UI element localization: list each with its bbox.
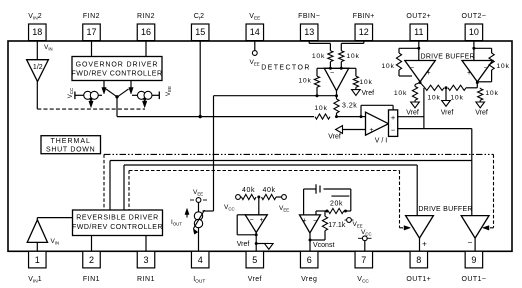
svg-text:+: + [426,70,430,77]
svg-text:OUT2−: OUT2− [462,13,487,20]
svg-text:17: 17 [86,27,96,37]
svg-text:GOVERNOR DRIVER: GOVERNOR DRIVER [76,62,159,69]
svg-text:FIN1: FIN1 [83,276,100,283]
svg-text:10k: 10k [381,63,394,70]
svg-text:7: 7 [361,255,366,265]
svg-text:9: 9 [471,255,476,265]
svg-text:17.1k: 17.1k [328,222,346,229]
svg-text:1: 1 [35,255,40,265]
svg-text:−: − [391,126,396,135]
svg-text:12: 12 [359,27,369,37]
svg-text:−: − [468,238,473,247]
svg-text:10k: 10k [394,90,407,97]
svg-text:40k: 40k [262,187,275,194]
svg-text:16: 16 [141,27,151,37]
svg-text:8: 8 [416,255,421,265]
svg-text:VEE: VEE [166,86,172,96]
svg-text:10k: 10k [427,95,440,102]
svg-text:V / I: V / I [375,138,388,145]
svg-text:OUT1+: OUT1+ [406,276,431,283]
svg-text:OUT1−: OUT1− [462,276,487,283]
svg-text:FBIN−: FBIN− [298,13,320,20]
svg-text:10k: 10k [359,79,372,86]
svg-text:−: − [410,65,414,72]
svg-text:DETECTOR: DETECTOR [261,65,311,72]
svg-text:FBIN+: FBIN+ [353,13,375,20]
svg-text:VCC: VCC [68,87,74,98]
svg-text:FWD/REV CONTROLLER: FWD/REV CONTROLLER [71,71,162,78]
svg-text:+: + [422,240,427,249]
svg-text:14: 14 [250,27,260,37]
svg-text:DRIVE BUFFER: DRIVE BUFFER [421,54,475,61]
svg-text:20k: 20k [330,200,343,207]
svg-text:Vref: Vref [406,110,419,117]
svg-text:+: + [369,127,373,134]
svg-text:10k: 10k [485,90,498,97]
svg-text:THERMAL: THERMAL [50,138,90,145]
svg-text:3.2k: 3.2k [342,103,357,110]
svg-text:10k: 10k [450,95,463,102]
svg-text:−: − [313,218,317,225]
svg-text:RIN2: RIN2 [137,13,155,20]
svg-text:Vreg: Vreg [301,276,317,283]
svg-text:10: 10 [469,27,479,37]
svg-text:2: 2 [89,255,94,265]
svg-text:SHUT DOWN: SHUT DOWN [46,147,95,154]
svg-text:+: + [302,218,306,225]
svg-text:FWD/REV CONTROLLER: FWD/REV CONTROLLER [72,224,163,231]
svg-text:18: 18 [32,27,42,37]
svg-text:REVERSIBLE DRIVER: REVERSIBLE DRIVER [76,215,159,222]
svg-text:+: + [391,113,396,122]
svg-text:Vref: Vref [328,134,341,141]
svg-text:Vref: Vref [237,241,250,248]
svg-text:Vref: Vref [248,276,262,283]
svg-text:13: 13 [304,27,314,37]
svg-text:−: − [483,65,487,72]
svg-text:10k: 10k [346,53,359,60]
svg-text:FIN2: FIN2 [83,13,100,20]
svg-text:10k: 10k [314,105,327,112]
svg-text:6: 6 [307,255,312,265]
svg-text:−: − [330,70,334,77]
svg-text:OUT2+: OUT2+ [406,13,431,20]
svg-text:+: + [467,70,471,77]
svg-text:10k: 10k [496,63,509,70]
svg-text:10k: 10k [312,53,325,60]
svg-text:DRIVE BUFFER: DRIVE BUFFER [418,206,472,213]
svg-text:Vref: Vref [475,110,488,117]
svg-text:−: − [249,217,253,224]
svg-text:Vref: Vref [362,90,375,97]
svg-text:40k: 40k [242,187,255,194]
svg-text:1/2: 1/2 [33,64,43,71]
svg-text:10k: 10k [298,78,311,85]
svg-text:Vref: Vref [441,110,454,117]
svg-text:5: 5 [252,255,257,265]
svg-text:RIN1: RIN1 [137,276,155,283]
svg-text:+: + [259,217,263,224]
svg-text:11: 11 [414,27,423,37]
svg-text:Vconst: Vconst [313,242,334,249]
svg-text:15: 15 [195,27,205,37]
svg-text:4: 4 [198,255,203,265]
svg-text:3: 3 [143,255,148,265]
